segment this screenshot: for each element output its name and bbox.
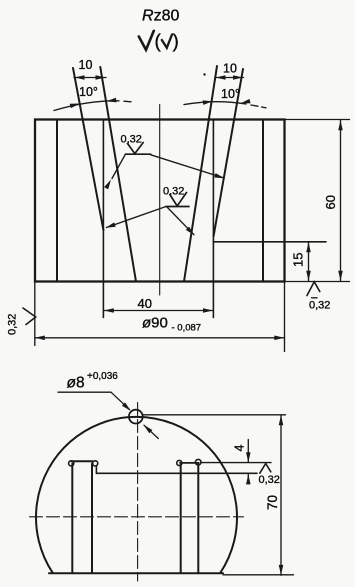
dimension 10 right <box>215 77 244 79</box>
leader to right groove wall <box>151 155 224 178</box>
dimension 4 <box>247 440 249 463</box>
svg-text:10°: 10° <box>221 87 240 101</box>
bottom edge extension right <box>285 281 350 283</box>
svg-text:0,32: 0,32 <box>7 314 19 335</box>
groove bottom line / ext for 15 <box>213 241 326 243</box>
svg-text:10: 10 <box>223 62 237 76</box>
front view body rectangle <box>35 120 285 282</box>
machined face line between slots <box>96 472 257 474</box>
dimension 60 <box>285 119 350 121</box>
svg-text:10°: 10° <box>79 85 98 99</box>
right groove left wall <box>184 66 217 282</box>
svg-text:ø90: ø90 <box>142 315 168 332</box>
horizontal centerline bottom view <box>30 516 244 518</box>
svg-text:0,32: 0,32 <box>121 134 142 146</box>
leader to left groove wall <box>112 154 125 178</box>
opposite arrow on hole <box>144 425 158 438</box>
right slot <box>180 464 182 573</box>
svg-text:+0,036: +0,036 <box>87 371 118 382</box>
dimension 40 <box>103 310 213 312</box>
stray dot <box>203 73 205 75</box>
dimension 15 <box>308 242 310 281</box>
leader to left slot corner <box>107 207 167 228</box>
flat bottom edge <box>49 572 223 574</box>
leader to right groove wall <box>167 207 194 235</box>
svg-text:- 0,087: - 0,087 <box>172 323 202 334</box>
svg-text:): ) <box>173 32 179 53</box>
dimension 10 left <box>74 77 106 79</box>
left groove right wall <box>100 67 136 282</box>
svg-text:40: 40 <box>138 296 152 311</box>
silhouette line right <box>262 120 264 282</box>
svg-text:0,32: 0,32 <box>163 186 184 198</box>
svg-text:60: 60 <box>323 195 338 209</box>
silhouette line left <box>56 120 58 282</box>
svg-text:70: 70 <box>265 495 280 510</box>
surface check 0,32 bottom right <box>307 282 320 296</box>
dimension 70 <box>143 414 286 416</box>
svg-text:10: 10 <box>79 58 93 72</box>
surface finish symbol all-over check <box>139 31 154 50</box>
svg-text:4: 4 <box>233 445 247 452</box>
svg-text:0,32: 0,32 <box>259 474 280 486</box>
angle arc 10 deg left <box>54 101 119 111</box>
svg-text:(: ( <box>155 32 162 53</box>
body circle with flat bottom <box>36 417 237 573</box>
hole dia 8 circle <box>129 410 143 424</box>
svg-text:15: 15 <box>291 253 306 267</box>
centerline front view <box>159 105 161 296</box>
slot top face extension line <box>201 462 271 464</box>
left groove left wall <box>73 68 103 230</box>
slot edge / extension line right <box>212 120 214 318</box>
bottom extension for 70 <box>223 574 294 576</box>
surface check 0,32 at slots <box>260 464 271 474</box>
surface check 0,32 left side (rotated) <box>23 308 36 325</box>
right groove right wall <box>214 69 243 236</box>
left slot <box>71 464 73 574</box>
vertical centerline bottom view <box>137 403 139 582</box>
svg-text:Rz80: Rz80 <box>142 8 179 25</box>
dimension dia 90 <box>34 282 36 346</box>
angle arc 10 deg right <box>184 102 246 105</box>
svg-text:ø8: ø8 <box>67 375 85 392</box>
slot edge / extension line left <box>102 120 104 318</box>
svg-text:0,32: 0,32 <box>309 300 330 312</box>
